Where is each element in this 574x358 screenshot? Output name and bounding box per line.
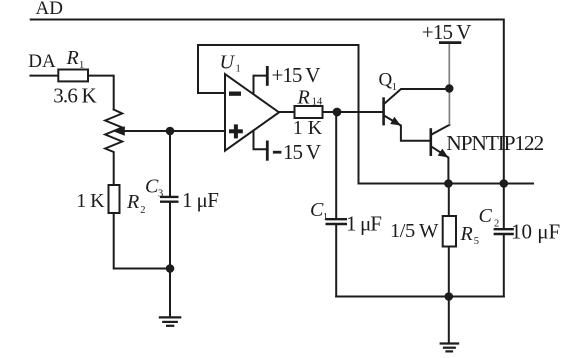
svg-text:Q: Q <box>379 70 393 91</box>
svg-text:AD: AD <box>36 0 63 19</box>
svg-text:NPNTIP122: NPNTIP122 <box>446 131 543 155</box>
svg-text:+15 V: +15 V <box>272 63 321 87</box>
svg-text:1 K: 1 K <box>76 190 105 212</box>
svg-text:15 V: 15 V <box>283 140 321 164</box>
svg-text:2: 2 <box>140 205 145 216</box>
svg-text:5: 5 <box>474 236 479 247</box>
svg-text:DA: DA <box>28 51 56 72</box>
svg-text:C: C <box>145 176 159 198</box>
svg-text:R: R <box>126 191 139 213</box>
svg-text:R: R <box>297 87 310 109</box>
svg-text:1 μF: 1 μF <box>182 188 218 212</box>
svg-text:+15 V: +15 V <box>422 20 472 44</box>
svg-text:3.6 K: 3.6 K <box>53 83 96 107</box>
svg-text:1 μF: 1 μF <box>346 212 381 236</box>
svg-text:C: C <box>479 205 493 227</box>
svg-text:1: 1 <box>323 212 328 223</box>
svg-text:1: 1 <box>392 82 397 93</box>
svg-text:1 K: 1 K <box>293 117 323 139</box>
svg-text:1: 1 <box>79 60 84 71</box>
svg-text:U: U <box>220 52 236 74</box>
svg-text:3: 3 <box>158 189 163 200</box>
svg-text:R: R <box>460 223 473 245</box>
svg-text:1/5 W: 1/5 W <box>390 220 439 242</box>
svg-text:R: R <box>66 47 79 69</box>
svg-text:14: 14 <box>312 96 323 107</box>
svg-text:2: 2 <box>494 218 499 229</box>
svg-text:1: 1 <box>236 63 241 74</box>
svg-text:10 μF: 10 μF <box>511 220 560 244</box>
